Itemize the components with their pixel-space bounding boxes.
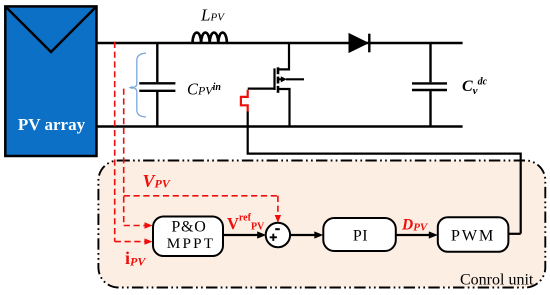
- inductor LPV: [193, 6, 227, 43]
- channel segments: [277, 67, 280, 74]
- drain stub: [278, 43, 289, 69]
- capacitor CPVin: [139, 43, 221, 127]
- svg-text:P&O: P&O: [171, 219, 206, 236]
- wire bottom rail: [97, 125, 463, 128]
- arrow MPPT to summer: [223, 231, 266, 238]
- source stub: [278, 89, 290, 127]
- body arrow: [278, 78, 281, 80]
- arrow PI to PWM: [396, 231, 438, 238]
- svg-text:PI: PI: [353, 227, 368, 244]
- arrow summer to PI: [290, 231, 323, 238]
- gate wire: [248, 87, 275, 89]
- MOSFET Q1: [248, 43, 304, 127]
- svg-text:LPV: LPV: [200, 6, 225, 25]
- gate pulse symbol (red): [241, 90, 248, 112]
- svg-text:CPVin: CPVin: [187, 79, 221, 98]
- wire PWM output: [508, 233, 521, 235]
- gate drive wire from PWM: [248, 112, 521, 234]
- svg-text:MPPT: MPPT: [167, 235, 215, 252]
- diode D1: [349, 34, 369, 53]
- VPV sense line (red dashed): [124, 89, 281, 229]
- svg-text:PV array: PV array: [18, 115, 86, 134]
- PI block: [323, 218, 396, 251]
- svg-text:Conrol unit: Conrol unit: [460, 272, 534, 289]
- summing junction: [266, 223, 290, 247]
- PWM block: [438, 217, 509, 252]
- gate bar: [273, 68, 275, 90]
- blue measurement brace: [129, 53, 146, 117]
- wire top rail: [97, 42, 463, 45]
- svg-text:Cvdc: Cvdc: [462, 76, 488, 97]
- PV array: [5, 6, 96, 156]
- P&O MPPT block: [153, 217, 223, 257]
- iPV sense line (red dashed): [115, 42, 153, 245]
- svg-text:PWM: PWM: [451, 225, 495, 244]
- capacitor Cvdc: [412, 43, 488, 127]
- control unit box: [98, 161, 545, 288]
